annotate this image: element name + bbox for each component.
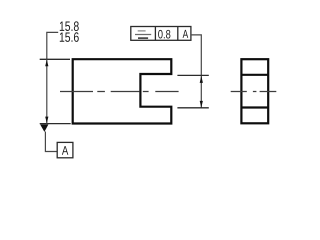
leader arrowhead up [200, 76, 203, 83]
datum A filled triangle [40, 124, 48, 131]
symmetry symbol bottom line [138, 37, 148, 39]
bottom extension line [40, 123, 71, 125]
main view part outline (front view with right-open slot) [73, 59, 172, 123]
dimension arrowhead up [45, 60, 48, 67]
tolerance value 0.8 [158, 30, 170, 39]
dimension leader bracket [47, 32, 58, 59]
symmetry symbol middle line [135, 34, 151, 36]
dimension value 15.8 [60, 21, 79, 31]
top extension line [40, 58, 70, 60]
feature control frame divider 2 [177, 27, 179, 41]
datum A box [57, 142, 73, 157]
symmetry symbol top line [138, 30, 146, 32]
leader from frame to slot [191, 35, 201, 108]
side view outline [241, 59, 268, 123]
datum letter A [62, 146, 68, 155]
side view slot edge line upper [241, 74, 268, 76]
datum reference letter A [183, 30, 189, 38]
centerline (main view, dash-dot) [60, 91, 179, 93]
dimension value 15.6 [60, 32, 79, 42]
datum leader line [45, 132, 57, 152]
slot top extension line [177, 74, 208, 76]
centerline (side view, dash-dot) [231, 91, 277, 93]
feature control frame outer box [131, 27, 191, 41]
slot bottom extension line [177, 107, 208, 109]
side view slot edge line lower [241, 106, 268, 108]
dimension line (vertical) [46, 59, 48, 123]
leader arrowhead down [200, 101, 203, 108]
dimension arrowhead down [45, 117, 48, 124]
feature control frame divider 1 [154, 27, 156, 41]
